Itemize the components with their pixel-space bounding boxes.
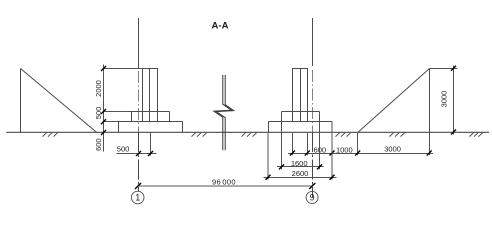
right row3 dim line (2600) — [264, 177, 337, 179]
axis bubble 1 — [131, 191, 144, 204]
left pedestal — [132, 112, 170, 122]
row2 ticks — [279, 164, 322, 169]
svg-text:1600: 1600 — [291, 159, 308, 168]
svg-text:3000: 3000 — [384, 145, 401, 154]
svg-text:2600: 2600 — [292, 169, 309, 178]
overall dim line 96000 — [138, 185, 312, 187]
row3 ticks — [266, 175, 335, 180]
right slope triangle — [358, 69, 430, 133]
right axis line — [312, 18, 314, 66]
svg-text:3000: 3000 — [440, 91, 449, 108]
right footing step — [269, 122, 333, 133]
right vertical dim 3000: top extension — [430, 68, 458, 70]
svg-text:500: 500 — [117, 145, 130, 154]
500 horizontal dim line — [117, 153, 157, 155]
left axis line (solid above, dash-dot below) — [138, 18, 140, 69]
ground hatch group G5 — [390, 132, 406, 136]
right row2 dim line (1600) — [277, 166, 324, 168]
row1 ticks — [290, 151, 432, 156]
svg-text:600: 600 — [94, 138, 103, 151]
svg-text:500: 500 — [94, 107, 103, 120]
left column (3 lines + top edge) — [142, 69, 158, 122]
left dimension chain line — [103, 65, 105, 152]
svg-text:96000: 96000 — [212, 177, 236, 186]
500 horizontal dim: extension line — [150, 133, 152, 156]
right row3 extension lines — [268, 133, 332, 180]
ground hatch group G4 — [336, 132, 352, 136]
svg-text:9: 9 — [310, 193, 315, 203]
break symbol line 2 — [216, 75, 234, 150]
extension line top (to column top) — [104, 68, 145, 70]
ground hatch group G1 — [43, 132, 59, 136]
500 dim ticks — [136, 151, 153, 156]
svg-text:1000: 1000 — [336, 145, 353, 154]
right vertical dim ticks — [451, 66, 456, 135]
right row2 extension lines — [282, 122, 320, 169]
right row1 extension lines — [293, 133, 430, 156]
ground line — [6, 131, 489, 133]
svg-text:2000: 2000 — [94, 80, 103, 97]
extension line pedestal top — [104, 111, 132, 113]
right pedestal — [282, 112, 320, 122]
ground hatch group G3 — [242, 132, 258, 136]
left slope triangle — [21, 69, 97, 133]
right row1 dim line (600 / 1000 / 3000) — [288, 153, 433, 155]
96000 ticks — [135, 183, 315, 189]
axis bubble 9 — [306, 191, 318, 203]
extension line step top — [104, 121, 119, 123]
svg-text:A-A: A-A — [212, 21, 229, 32]
ground hatch group G2 — [192, 132, 208, 136]
left footing step — [119, 122, 183, 133]
left chain ticks — [101, 66, 106, 135]
right vertical dim line — [453, 66, 455, 135]
svg-text:1: 1 — [135, 193, 140, 203]
ground hatch group G6 — [470, 132, 484, 136]
right column (3 lines + top edge) — [292, 69, 308, 122]
break symbol line 1 — [214, 75, 232, 150]
